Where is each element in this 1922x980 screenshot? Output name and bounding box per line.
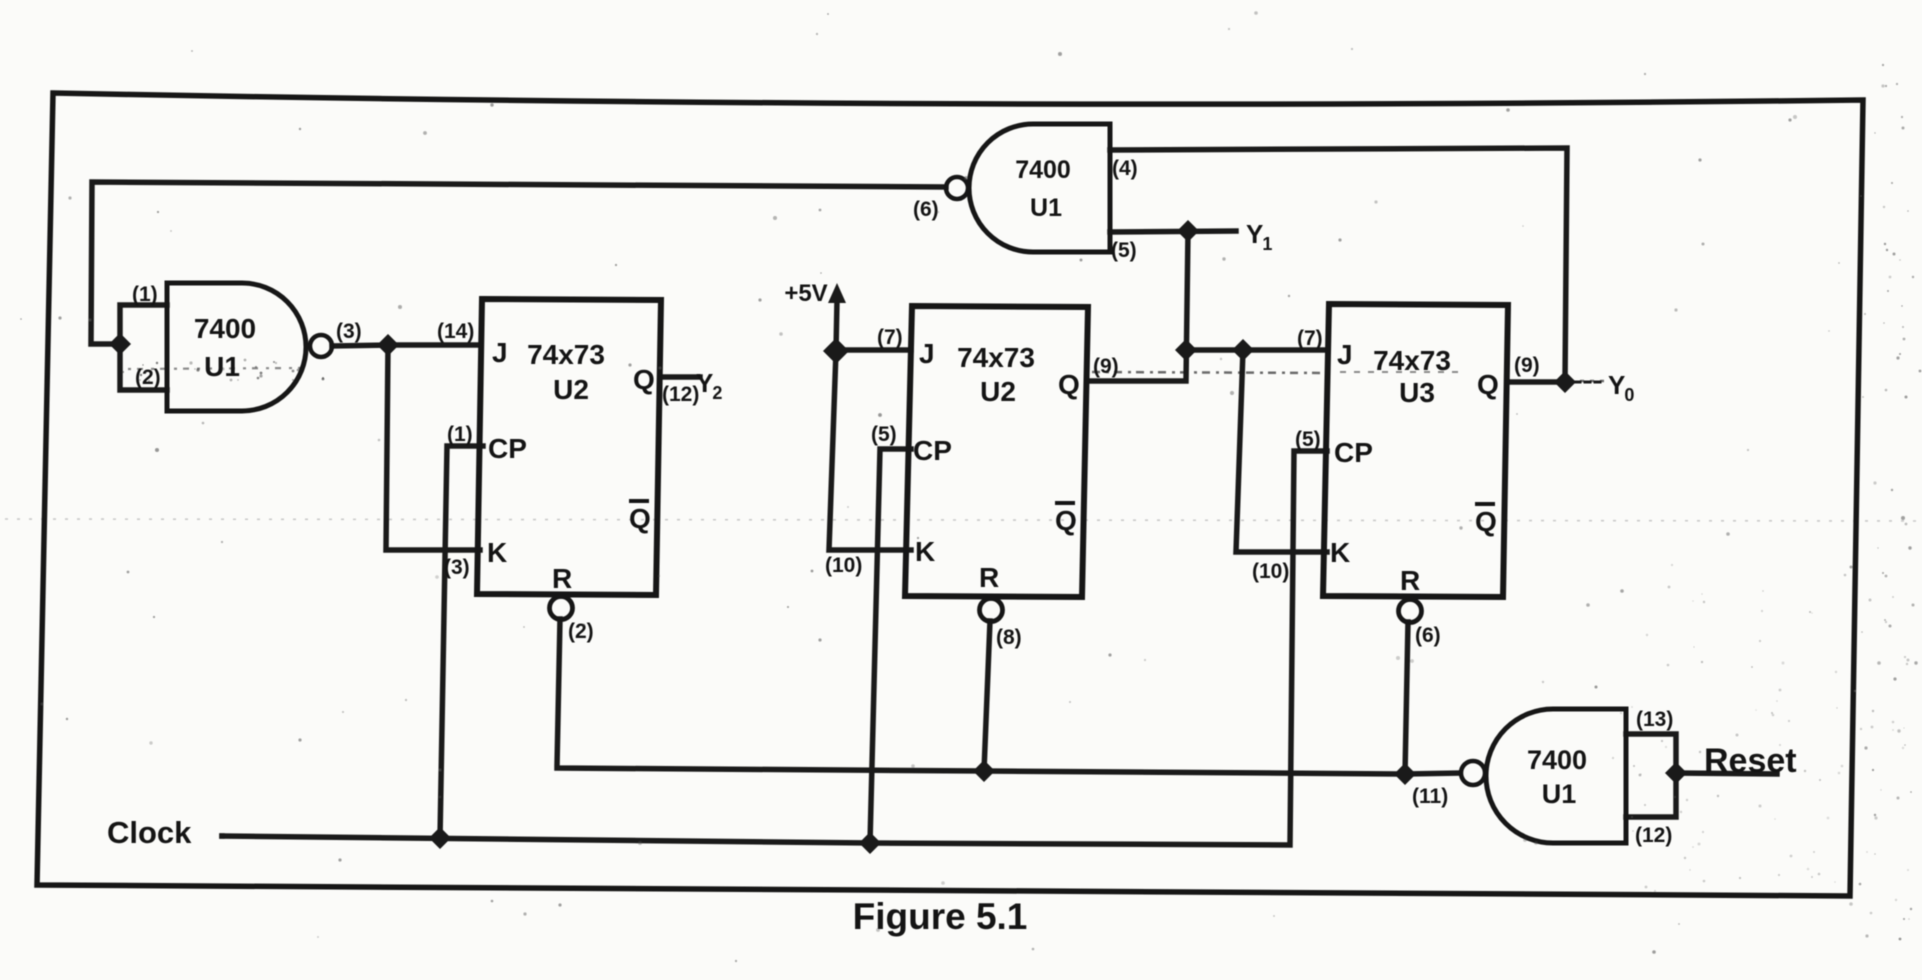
svg-text:J: J bbox=[919, 338, 935, 369]
svg-text:7400: 7400 bbox=[1527, 745, 1587, 775]
svg-text:(11): (11) bbox=[1412, 785, 1448, 808]
svg-text:74x73: 74x73 bbox=[527, 339, 605, 370]
svg-text:(13): (13) bbox=[1636, 708, 1673, 731]
svg-text:U2: U2 bbox=[553, 374, 589, 405]
svg-text:Q: Q bbox=[633, 364, 655, 395]
svg-text:(4): (4) bbox=[1112, 157, 1138, 180]
svg-text:CP: CP bbox=[913, 435, 952, 466]
svg-text:(12): (12) bbox=[662, 383, 699, 406]
svg-text:Q: Q bbox=[1477, 369, 1499, 400]
svg-text:(3): (3) bbox=[336, 320, 362, 343]
svg-text:U2: U2 bbox=[980, 376, 1016, 407]
svg-text:(3): (3) bbox=[444, 556, 470, 579]
svg-text:(8): (8) bbox=[996, 626, 1022, 649]
svg-text:Reset: Reset bbox=[1704, 742, 1797, 780]
svg-text:(10): (10) bbox=[1252, 560, 1289, 583]
svg-text:Q: Q bbox=[629, 503, 651, 534]
svg-text:(9): (9) bbox=[1514, 354, 1540, 377]
svg-text:U1: U1 bbox=[1542, 779, 1577, 809]
svg-text:J: J bbox=[1337, 339, 1353, 370]
svg-text:U1: U1 bbox=[1030, 194, 1062, 222]
svg-text:K: K bbox=[915, 536, 935, 567]
svg-text:K: K bbox=[487, 537, 507, 568]
svg-text:CP: CP bbox=[1334, 437, 1373, 468]
svg-text:(1): (1) bbox=[447, 423, 473, 446]
svg-text:7400: 7400 bbox=[194, 313, 256, 344]
svg-text:(7): (7) bbox=[877, 326, 903, 349]
svg-text:K: K bbox=[1330, 537, 1350, 568]
svg-text:(12): (12) bbox=[1635, 824, 1672, 847]
svg-text:74x73: 74x73 bbox=[1373, 345, 1451, 376]
svg-text:CP: CP bbox=[488, 433, 527, 464]
svg-text:(6): (6) bbox=[1415, 624, 1441, 647]
svg-text:(6): (6) bbox=[913, 198, 939, 221]
svg-text:(2): (2) bbox=[568, 620, 594, 643]
svg-text:Q: Q bbox=[1475, 506, 1497, 537]
svg-text:+5V: +5V bbox=[784, 280, 827, 307]
svg-text:Clock: Clock bbox=[107, 815, 192, 850]
svg-text:R: R bbox=[979, 562, 999, 593]
svg-text:(5): (5) bbox=[1111, 239, 1137, 262]
svg-text:(1): (1) bbox=[132, 283, 158, 306]
svg-text:(14): (14) bbox=[437, 320, 474, 343]
svg-text:Q: Q bbox=[1058, 369, 1080, 400]
svg-text:(9): (9) bbox=[1093, 355, 1119, 378]
svg-text:(2): (2) bbox=[135, 366, 161, 389]
svg-text:74x73: 74x73 bbox=[957, 342, 1035, 373]
svg-text:Q: Q bbox=[1055, 505, 1077, 536]
svg-text:U3: U3 bbox=[1399, 377, 1435, 408]
svg-text:7400: 7400 bbox=[1015, 156, 1071, 184]
svg-text:U1: U1 bbox=[204, 351, 240, 382]
svg-text:J: J bbox=[492, 337, 508, 368]
svg-text:Y0: Y0 bbox=[1608, 370, 1634, 405]
svg-text:Y2: Y2 bbox=[696, 368, 722, 403]
svg-text:(5): (5) bbox=[871, 423, 897, 446]
svg-text:(5): (5) bbox=[1295, 428, 1321, 451]
svg-text:R: R bbox=[552, 563, 572, 594]
svg-text:R: R bbox=[1400, 565, 1420, 596]
svg-text:Y1: Y1 bbox=[1246, 219, 1272, 254]
svg-text:(7): (7) bbox=[1297, 327, 1323, 350]
svg-text:(10): (10) bbox=[825, 554, 862, 577]
